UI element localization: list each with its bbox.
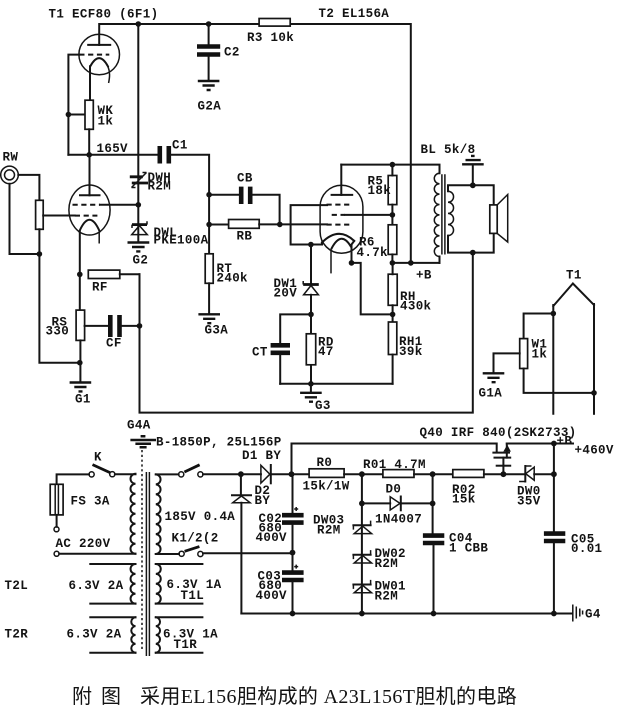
wire: K to primary	[115, 473, 136, 475]
wire: D2 to bottom rail	[240, 503, 242, 614]
node junction screen V1b / DWH line	[136, 202, 142, 208]
mosfet Q40 IRF840	[493, 452, 509, 454]
transformer winding T2R	[131, 617, 135, 652]
svg-text:C2: C2	[224, 46, 240, 60]
diode D0 1N4007	[361, 474, 363, 503]
svg-text:R2M: R2M	[375, 557, 399, 571]
svg-text:1 CBB: 1 CBB	[449, 542, 488, 556]
svg-text:G2: G2	[133, 254, 149, 268]
svg-text:T1R: T1R	[174, 638, 198, 652]
wire: W1 wiper to G1A	[494, 353, 520, 372]
wire: WK wiper	[68, 114, 85, 116]
wire: grid lead V1a to WK wiper	[68, 55, 79, 155]
svg-text:G1: G1	[75, 393, 91, 407]
wire: EL156 heater stub	[330, 249, 332, 273]
capacitor C03 680/400V	[282, 573, 304, 580]
svg-text:BL 5k/8: BL 5k/8	[421, 143, 476, 157]
svg-text:T1L: T1L	[181, 589, 205, 603]
wire: RB to EL156 grid1	[259, 223, 327, 225]
svg-text:15k/1W: 15k/1W	[303, 480, 350, 494]
svg-text:20V: 20V	[274, 287, 298, 301]
wire: +B bus	[392, 262, 439, 264]
svg-text:+B: +B	[557, 435, 573, 449]
node junction rectifier output	[289, 471, 295, 477]
capacitor C04 1 CBB	[432, 503, 434, 533]
svg-text:1k: 1k	[98, 115, 114, 129]
wire: EL156 suppressor bracket to cathode	[291, 205, 327, 244]
varistor DWH R2M	[137, 24, 139, 241]
svg-text:T1 ECF80 (6F1): T1 ECF80 (6F1)	[49, 8, 159, 22]
node junction mosfet source	[501, 471, 507, 477]
transformer winding T1R	[156, 617, 160, 652]
svg-text:0.01: 0.01	[571, 542, 602, 556]
wire: pot bottom to G1 bus	[39, 229, 79, 362]
capacitor CT	[280, 314, 311, 343]
node junction secondary bottom / feedback	[470, 250, 476, 256]
resistor R01 4.7M	[383, 470, 414, 478]
svg-text:T2 EL156A: T2 EL156A	[319, 7, 390, 21]
wire: RF right to feedback line	[120, 273, 140, 275]
transformer BL core	[442, 174, 445, 254]
node junction RS bottom / pot ground bus	[77, 360, 83, 366]
svg-text:R3 10k: R3 10k	[247, 31, 294, 45]
wire: gate feed rail	[292, 444, 497, 475]
node junction R01/R02/D0/C04	[430, 471, 436, 477]
pentode U2 EL156 body	[320, 185, 363, 253]
svg-text:CT: CT	[252, 346, 268, 360]
resistor RF	[88, 270, 120, 278]
zener DW0 35V	[524, 466, 526, 482]
potentiometer W1 1k	[524, 314, 554, 339]
wire: RT bottom to G3A	[208, 283, 210, 313]
wire: CF to feedback line	[122, 325, 140, 327]
svg-text:400V: 400V	[256, 589, 288, 603]
transformer winding 185V	[156, 474, 161, 554]
potentiometer WK 1k	[85, 100, 93, 129]
svg-text:D1 BY: D1 BY	[242, 449, 281, 463]
ground G1A	[483, 373, 505, 382]
svg-text:G3A: G3A	[205, 324, 229, 338]
wire: bottom rail	[241, 613, 572, 615]
ground G2	[128, 243, 150, 252]
node junction sleeve/pot	[37, 251, 43, 257]
triode V1a (top of SRPP)	[79, 34, 120, 75]
node junction R5/R6/screen	[390, 212, 396, 218]
capacitor C02 680/400V	[292, 474, 294, 513]
ground G4A shield	[130, 436, 156, 447]
node junction RH/RH1/cathode	[390, 312, 396, 318]
svg-text:400V: 400V	[256, 531, 288, 545]
svg-text:18k: 18k	[368, 184, 392, 198]
resistor R5 18k	[388, 176, 397, 205]
zener DWL PKE100A	[132, 223, 147, 226]
svg-text:T1: T1	[566, 269, 582, 283]
terminal AC N	[54, 551, 59, 556]
capacitor C2	[208, 24, 210, 45]
node junction cathode/RF	[77, 272, 83, 278]
resistor R02 15k	[453, 470, 484, 478]
potentiometer volume	[36, 200, 44, 229]
svg-text:R01 4.7M: R01 4.7M	[363, 458, 426, 472]
zener DW01 R2M	[353, 584, 370, 586]
wire: EL156 screen to R5/R6	[345, 214, 392, 216]
node junction suppressor/cathode	[308, 242, 314, 248]
resistor RD 47	[306, 334, 315, 365]
svg-text:1k: 1k	[532, 348, 548, 362]
svg-text:330: 330	[46, 325, 70, 339]
wire: cathode network bottom bus	[280, 383, 392, 385]
ground G2A	[198, 81, 220, 90]
ground G3	[310, 384, 312, 392]
node junction CB tap	[206, 192, 212, 198]
fuse FS 3A	[50, 484, 63, 515]
capacitor C1	[160, 146, 169, 164]
svg-text:430k: 430k	[400, 300, 432, 314]
svg-text:BY: BY	[255, 494, 271, 508]
svg-text:185V 0.4A: 185V 0.4A	[165, 510, 236, 524]
node junction CB/RB/grid	[277, 222, 283, 228]
transformer winding T1L	[156, 564, 161, 604]
capacitor CB	[209, 194, 239, 196]
svg-text:47: 47	[318, 345, 334, 359]
wire: top B+ rail right segment down to +B	[290, 24, 411, 263]
wire: cathode V1a to WK	[89, 66, 91, 100]
svg-text:K1/2(2: K1/2(2	[172, 532, 219, 546]
svg-text:1N4007: 1N4007	[375, 513, 422, 527]
wire: K1 upper to D1/D2 node	[203, 473, 241, 475]
svg-text:Q40 IRF 840(2SK2733): Q40 IRF 840(2SK2733)	[420, 426, 577, 440]
transformer T primary winding	[131, 474, 136, 554]
svg-text:R0: R0	[317, 456, 333, 470]
node junction cathode lead corner	[349, 260, 355, 266]
zener DW1 20V	[310, 245, 312, 285]
ground above secondary	[472, 165, 474, 186]
switch K1/2 lower	[156, 553, 179, 555]
wire: EL156 cathode right lead to divider	[352, 241, 393, 315]
svg-text:RB: RB	[237, 230, 253, 244]
svg-text:R2M: R2M	[375, 590, 399, 604]
capacitor C05 0.01	[544, 534, 565, 541]
caption	[72, 680, 92, 709]
wire: W1 bottom bus	[524, 369, 594, 393]
svg-text:G1A: G1A	[479, 387, 503, 401]
svg-text:240k: 240k	[217, 272, 249, 286]
resistor R0 15k/1W	[292, 473, 310, 475]
svg-text:+460V: +460V	[575, 444, 614, 458]
wire: plate rail to BL primary	[341, 165, 439, 174]
svg-text:RF: RF	[92, 281, 108, 295]
svg-text:R2M: R2M	[317, 524, 341, 538]
node junction wiper WK	[66, 112, 72, 118]
wire: V1a heater stub	[108, 66, 110, 83]
resistor R6 4.7k	[388, 225, 397, 255]
ground G1	[70, 383, 92, 392]
svg-text:FS 3A: FS 3A	[71, 495, 110, 509]
wire: V1b heater stub	[98, 232, 100, 244]
wire: doubler return to K1 lower	[203, 552, 293, 554]
node junction DW1/CT/RD	[308, 312, 314, 318]
svg-text:D0: D0	[386, 483, 402, 497]
svg-text:4.7k: 4.7k	[357, 246, 389, 260]
node junction CF/feedback	[137, 323, 143, 329]
transformer BL primary winding	[434, 173, 439, 256]
svg-text:B-1850P, 25L156P: B-1850P, 25L156P	[156, 436, 282, 450]
wire: K to fuse	[57, 474, 89, 484]
resistor RH1 39k	[388, 322, 396, 355]
wire: C1 to RT/CB/RB column	[171, 155, 209, 254]
terminal AC L	[56, 515, 58, 527]
wire: EL156 plate lead	[340, 165, 342, 195]
svg-text:G4: G4	[585, 608, 601, 622]
ground G4	[573, 605, 583, 622]
svg-text:AC 220V: AC 220V	[56, 537, 111, 551]
svg-text:6.3V 2A: 6.3V 2A	[69, 579, 124, 593]
wire: RS tap to CF	[85, 325, 109, 327]
node junction R5 top / plate rail	[390, 162, 396, 168]
switch K1/2 upper	[156, 473, 179, 475]
svg-text:G4A: G4A	[127, 419, 151, 433]
node junction R0/R01/zeners	[359, 471, 365, 477]
wire: CB right to grid node	[252, 195, 279, 225]
wire: AC N to primary bottom	[59, 553, 135, 555]
resistor R3	[259, 19, 290, 27]
svg-text:CB: CB	[237, 172, 253, 186]
node junction secondary top / ground	[470, 182, 476, 188]
svg-text:G3: G3	[315, 399, 331, 413]
triode V1b (bottom of SRPP)	[69, 185, 110, 235]
svg-text:K: K	[94, 451, 102, 465]
zener DW02 R2M	[353, 554, 370, 556]
resistor RT 240k	[205, 254, 213, 283]
transformer T core	[146, 472, 149, 656]
svg-text:G2A: G2A	[198, 100, 222, 114]
wire: secondary loop	[448, 185, 494, 252]
node junction rail/DWH	[136, 21, 142, 27]
wire: drain rail to +B	[507, 443, 573, 445]
svg-text:R2M: R2M	[148, 180, 172, 194]
svg-text:C1: C1	[172, 139, 188, 153]
diode D2 BY	[240, 474, 242, 495]
svg-text:35V: 35V	[517, 495, 541, 509]
resistor RB	[209, 224, 229, 226]
wire: RW sleeve to ground bus	[10, 184, 40, 254]
svg-text:T2L: T2L	[5, 579, 29, 593]
ground G3A	[198, 314, 220, 323]
transformer winding T2L	[131, 564, 136, 604]
svg-text:RW: RW	[3, 151, 19, 165]
svg-text:39k: 39k	[399, 345, 423, 359]
zener chain line	[361, 503, 363, 613]
svg-text:T2R: T2R	[5, 628, 29, 642]
wire: volume wiper to V1b grid	[43, 215, 75, 217]
wire: feedback net from speaker	[140, 253, 473, 413]
node junction rail/C2	[206, 21, 212, 27]
svg-text:PKE100A: PKE100A	[154, 234, 209, 248]
wire: +460V column	[553, 444, 555, 532]
wire: V1b cathode down to RS	[79, 232, 81, 311]
wire: RW hot to volume pot	[18, 175, 39, 200]
wire: WK bottom to 165V rail	[88, 129, 90, 155]
transformer T shield (dotted)	[141, 450, 143, 650]
svg-text:15k: 15k	[452, 493, 476, 507]
svg-text:CF: CF	[106, 337, 122, 351]
zener DW03 R2M	[353, 524, 370, 526]
speaker	[490, 205, 497, 234]
capacitor CF	[110, 315, 119, 337]
node junction RB tap	[206, 222, 212, 228]
resistor RH 430k	[388, 274, 397, 305]
wire: RS bottom to G1	[79, 340, 81, 381]
node junction D1/D2	[238, 471, 244, 477]
svg-text:+B: +B	[416, 269, 432, 283]
resistor RS 330	[76, 310, 85, 340]
transformer BL secondary winding	[448, 191, 454, 235]
svg-text:6.3V 2A: 6.3V 2A	[67, 628, 122, 642]
wire: top B+ rail left segment	[99, 24, 259, 45]
node junction C02/C03/doubler	[290, 550, 296, 556]
